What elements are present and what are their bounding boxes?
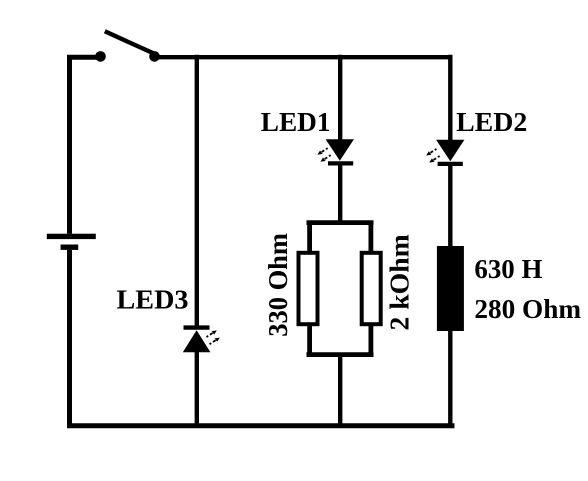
battery B1 long plate (+): [47, 234, 96, 239]
LED3 cathode bar: [184, 325, 210, 329]
wire right branch upper: [448, 55, 452, 142]
resistor network top bar: [307, 220, 374, 225]
LED1 light arrow 1: [317, 148, 327, 155]
wire left leg lower: [307, 326, 312, 356]
wire left leg upper: [307, 223, 312, 252]
wire left vertical (battery to bottom rail): [67, 250, 72, 428]
svg-text:LED2: LED2: [456, 107, 527, 137]
wire left vertical (top rail to battery): [70, 57, 102, 234]
wire right branch lower: [448, 330, 452, 426]
switch S1 contact node left: [95, 51, 106, 62]
svg-text:280 Ohm: 280 Ohm: [474, 294, 581, 324]
inductor L1 body (filled): [437, 246, 464, 331]
wire LED1 to resistor network: [338, 163, 342, 224]
LED2 light arrow 1: [426, 149, 436, 156]
resistor network bottom bar: [307, 352, 374, 357]
wire LED2 to inductor: [448, 164, 452, 247]
LED3 diode triangle: [183, 330, 211, 352]
LED2 cathode bar: [438, 162, 463, 166]
wire top rail (switch to right branch): [155, 55, 453, 59]
LED1 light arrow 2: [320, 155, 330, 162]
svg-text:630 H: 630 H: [474, 254, 542, 284]
wire right leg upper: [368, 223, 373, 252]
svg-text:2 kOhm: 2 kOhm: [385, 234, 415, 331]
resistor R1 body (330 Ohm): [299, 253, 318, 324]
svg-text:330 Ohm: 330 Ohm: [263, 233, 293, 337]
LED2 light arrow 2: [429, 156, 439, 163]
LED1 diode triangle: [326, 139, 354, 161]
wire right leg lower: [368, 326, 373, 356]
switch S1 contact node right: [149, 51, 160, 62]
LED3 light arrow 1: [207, 330, 217, 337]
svg-text:LED1: LED1: [261, 107, 331, 137]
wire LED3 branch lower: [195, 352, 199, 428]
LED2 diode triangle: [436, 140, 464, 162]
switch S1 lever (open): [105, 31, 154, 53]
wire middle branch lower: [338, 355, 342, 428]
battery B1 short plate (-): [61, 245, 79, 250]
wire middle branch upper: [338, 55, 342, 141]
wire LED3 branch upper: [195, 55, 199, 328]
resistor R2 body (2 kOhm): [362, 253, 381, 324]
LED1 cathode bar: [328, 161, 353, 165]
svg-text:LED3: LED3: [117, 285, 189, 315]
LED3 light arrow 2: [210, 338, 220, 345]
wire bottom rail: [67, 423, 454, 428]
